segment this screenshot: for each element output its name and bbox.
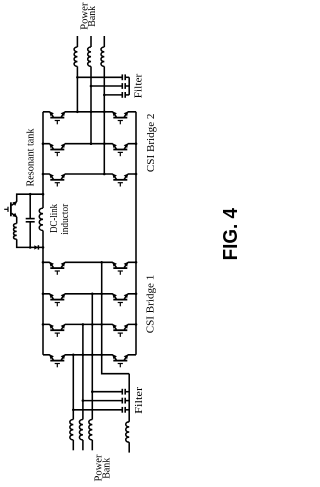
svg-text:CSI Bridge 1: CSI Bridge 1 <box>146 275 157 334</box>
svg-text:Resonant tank: Resonant tank <box>26 128 37 187</box>
wire phase C top <box>103 66 105 174</box>
inductor L5 phase bottom <box>79 420 82 451</box>
svg-text:CSI Bridge 2: CSI Bridge 2 <box>146 114 157 173</box>
wire row1 <box>43 111 136 113</box>
wire row3 <box>43 173 136 175</box>
capacitor C6 bottom filter <box>122 407 125 413</box>
wire phase A top <box>76 66 78 111</box>
diode D1 tank <box>34 245 38 249</box>
svg-text:Filter: Filter <box>134 386 145 414</box>
capacitor C4 bottom filter <box>122 389 125 395</box>
svg-text:DC-link: DC-link <box>49 203 60 233</box>
inductor L6 phase bottom <box>89 420 92 451</box>
wire filter neutral bus bottom <box>128 374 130 422</box>
wire aux to tank inductor <box>16 217 18 224</box>
wire rowC <box>43 323 136 325</box>
wire tank top branch <box>17 194 43 202</box>
label: Power Bank (bottom) <box>94 454 113 481</box>
wire filter feed 2 top <box>91 85 122 87</box>
capacitor C5 bottom filter <box>122 398 125 404</box>
wire filter neutral bus top <box>128 77 130 95</box>
wire tap rowA to neutral <box>102 262 130 373</box>
wire left DC bus lower <box>42 231 44 355</box>
capacitor C3 top filter <box>122 92 125 98</box>
wire rowB <box>43 293 136 295</box>
wire tank capacitor branch <box>29 194 31 247</box>
wire rowA <box>43 261 136 263</box>
wire right DC bus <box>135 112 137 355</box>
wire cap3 to bus <box>125 94 129 96</box>
wire filter feed 3 bottom <box>73 409 122 411</box>
wire filter feed 1 top <box>77 76 122 78</box>
transistor Q13 auxiliary <box>4 201 17 217</box>
label: Power Bank (top) <box>80 2 99 30</box>
wire tap rowC down <box>82 324 84 419</box>
capacitor C1 top filter <box>122 74 125 80</box>
wire tap rowB down <box>91 294 93 420</box>
transistor Q9 rowB left <box>49 293 65 306</box>
transistor Q7 rowA left <box>49 262 65 275</box>
wire cap5 to bus <box>125 400 129 402</box>
transistor Q10 rowB right <box>112 293 128 306</box>
inductor L7 neutral bottom <box>126 422 129 453</box>
inductor L1 phase A top <box>74 36 77 66</box>
transistor Q6 row3 right <box>112 174 128 187</box>
wire tap rowD down <box>72 355 74 420</box>
wire left DC bus <box>42 112 44 208</box>
label: DC-link inductor <box>49 203 71 235</box>
transistor Q3 row2 left <box>49 143 65 156</box>
svg-text:inductor: inductor <box>60 203 71 234</box>
transistor Q11 rowC left <box>49 324 65 337</box>
transistor Q2 row1 right <box>112 111 128 124</box>
wire phase B top <box>90 66 92 143</box>
transistor Q5 row3 left <box>49 174 65 187</box>
wire rowD <box>43 354 136 356</box>
transistor Q15 rowD right <box>112 354 128 367</box>
transistor Q4 row2 right <box>112 143 128 156</box>
junction dots <box>29 76 137 411</box>
capacitor tank <box>26 219 35 222</box>
wire row2 <box>43 143 136 145</box>
inductor tank <box>14 224 17 240</box>
wire cap4 to bus <box>125 391 129 393</box>
wire filter feed 2 bottom <box>83 400 122 402</box>
transistor Q12 rowC right <box>112 324 128 337</box>
wire cap1 to bus <box>125 76 129 78</box>
svg-text:Filter: Filter <box>134 73 145 98</box>
transistor Q1 row1 left <box>49 111 65 124</box>
inductor DC-link on left bus <box>39 208 43 230</box>
wire cap6 to bus <box>125 409 129 411</box>
svg-text:Bank: Bank <box>87 5 98 26</box>
transistor Q14 rowD left <box>49 354 65 367</box>
inductor L3 phase C top <box>101 36 104 66</box>
inductor L2 phase B top <box>88 36 91 66</box>
capacitor C2 top filter <box>122 83 125 89</box>
wire tank bottom branch <box>17 239 43 247</box>
svg-text:FIG. 4: FIG. 4 <box>220 207 240 260</box>
transistor Q8 rowA right <box>112 262 128 275</box>
wire cap2 to bus <box>125 85 129 87</box>
svg-text:Bank: Bank <box>102 457 113 479</box>
wire filter feed 1 bottom <box>92 391 122 393</box>
wire filter feed 3 top <box>104 94 122 96</box>
inductor L4 phase bottom <box>70 420 73 451</box>
